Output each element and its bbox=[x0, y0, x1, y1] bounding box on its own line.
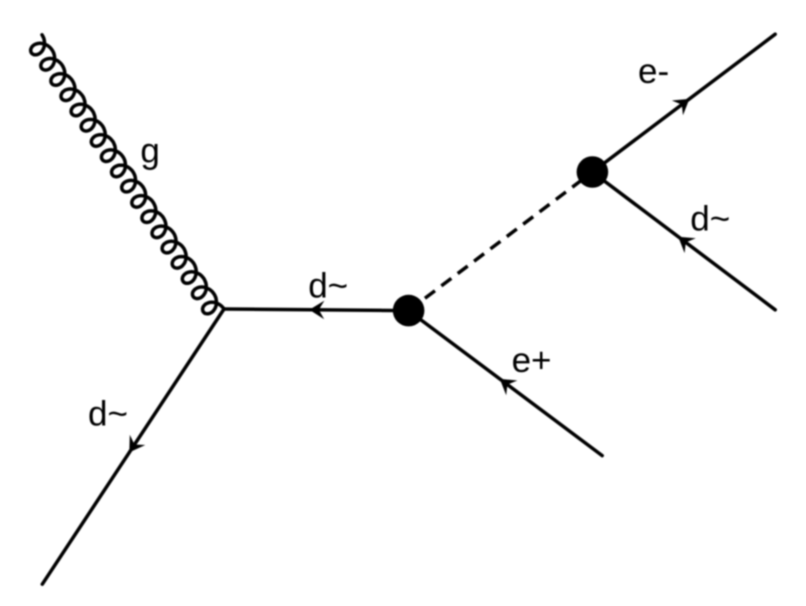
arrowhead on bottom-left d~ line bbox=[129, 435, 145, 453]
svg-text:e-: e- bbox=[638, 52, 669, 91]
svg-text:d~: d~ bbox=[308, 267, 348, 306]
svg-text:d~: d~ bbox=[690, 199, 730, 238]
wire: e+ outgoing line to bottom-right bbox=[409, 311, 603, 456]
arrowhead on e- line (points up-right) bbox=[672, 99, 690, 115]
wire: d~ outgoing line to middle-right bbox=[592, 172, 775, 310]
gluon g: incoming gluon line bbox=[31, 35, 224, 314]
arrowhead on e+ line (points up-left) bbox=[500, 379, 518, 395]
wire: internal d~ propagator (horizontal) bbox=[224, 309, 409, 311]
wire: dashed scalar propagator between vertices bbox=[409, 172, 593, 311]
arrowhead on horizontal d~ propagator (points left) bbox=[309, 301, 324, 320]
svg-text:e+: e+ bbox=[512, 341, 552, 380]
node: vertex dot at e- d~ junction bbox=[577, 156, 609, 188]
node: vertex dot at d~ e+ junction bbox=[393, 295, 425, 327]
svg-text:d~: d~ bbox=[88, 394, 128, 433]
svg-text:g: g bbox=[140, 132, 159, 171]
wire: antiquark d~ outgoing line to bottom-left bbox=[42, 309, 224, 584]
wire: e- outgoing line to top-right bbox=[592, 34, 775, 172]
arrowhead on right d~ line (points up-left) bbox=[678, 237, 696, 253]
